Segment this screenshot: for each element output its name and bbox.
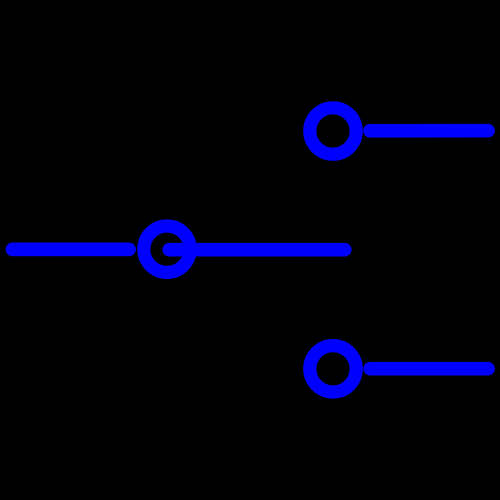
wire W1 (top right)	[370, 124, 488, 138]
wire W4 (bottom right)	[370, 362, 488, 376]
wire W3 (middle right, enters circle)	[169, 243, 344, 257]
terminal circle T2 (middle)	[144, 226, 190, 272]
terminal circle T1 (top)	[310, 108, 356, 154]
wire W2 (middle left)	[13, 243, 130, 257]
terminal circle T3 (bottom)	[310, 346, 356, 392]
